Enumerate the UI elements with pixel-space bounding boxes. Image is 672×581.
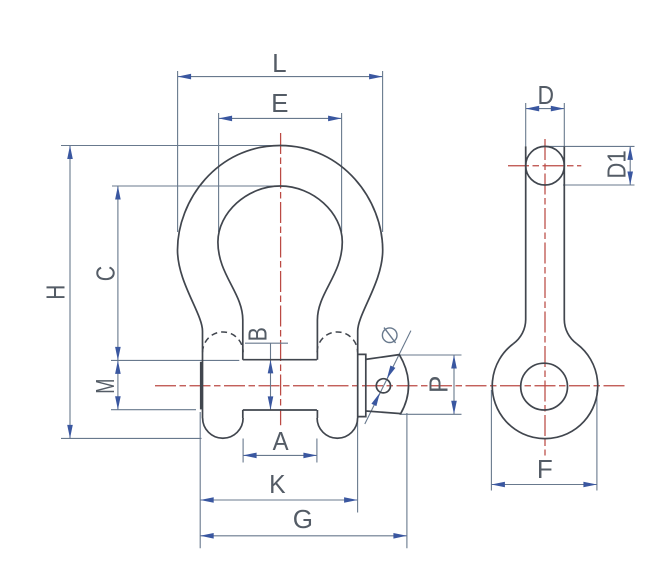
svg-text:F: F bbox=[537, 454, 553, 484]
svg-text:K: K bbox=[269, 470, 286, 499]
svg-text:E: E bbox=[271, 88, 288, 118]
svg-text:A: A bbox=[273, 427, 289, 456]
svg-text:P: P bbox=[423, 376, 453, 393]
svg-text:H: H bbox=[41, 285, 70, 300]
svg-text:C: C bbox=[91, 266, 121, 281]
svg-text:G: G bbox=[293, 504, 313, 534]
svg-text:D1: D1 bbox=[603, 150, 632, 178]
svg-text:L: L bbox=[272, 48, 286, 78]
svg-text:D: D bbox=[538, 82, 555, 111]
svg-text:M: M bbox=[91, 379, 120, 394]
svg-text:B: B bbox=[244, 327, 274, 341]
